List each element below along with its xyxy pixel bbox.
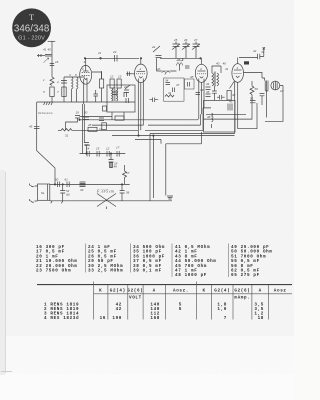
- capacitor 37: [173, 88, 175, 93]
- trimmer 27: [192, 44, 200, 58]
- capacitor 49: [212, 91, 217, 93]
- svg-text:15: 15: [96, 147, 100, 151]
- svg-text:33: 33: [177, 57, 181, 61]
- svg-text:50: 50: [255, 87, 259, 91]
- svg-text:2: 2: [56, 80, 59, 84]
- IF transformer to V4: [212, 73, 214, 86]
- resistor 31: [61, 129, 72, 132]
- schematic small labels: [29, 38, 284, 197]
- svg-text:G2(6): G2(6): [127, 289, 143, 294]
- svg-text:Aosz: Aosz: [274, 289, 287, 294]
- grid cap dark blob: [244, 61, 249, 64]
- svg-text:33 2,5 MOhm: 33 2,5 MOhm: [88, 269, 123, 274]
- capacitor 34: [166, 83, 171, 85]
- svg-text:31: 31: [168, 91, 172, 95]
- svg-text:G2(6): G2(6): [234, 289, 250, 294]
- capacitor 58: [260, 94, 265, 96]
- svg-text:26: 26: [183, 38, 188, 42]
- svg-text:45: 45: [29, 125, 33, 129]
- trimmer 25: [172, 44, 180, 58]
- svg-text:46: 46: [207, 115, 211, 119]
- svg-text:37: 37: [176, 83, 180, 87]
- svg-text:48 1000 pF: 48 1000 pF: [175, 273, 207, 278]
- wire: [72, 129, 92, 131]
- mains input terminals: [31, 185, 35, 202]
- wire: [80, 116, 113, 118]
- svg-text:40: 40: [216, 62, 220, 66]
- svg-text:42: 42: [116, 307, 122, 312]
- mains switch box 5a: [38, 184, 50, 200]
- antenna top bar: [48, 40, 56, 42]
- svg-text:27: 27: [193, 38, 198, 42]
- capacitor 56: [120, 191, 125, 194]
- svg-text:19: 19: [76, 111, 80, 115]
- capacitor 29 inner: [124, 92, 127, 97]
- svg-text:46: 46: [223, 62, 227, 66]
- wire right fan: [203, 104, 252, 119]
- resistor 31a zigzag: [165, 95, 174, 98]
- grid cluster stage 2: [107, 85, 135, 112]
- svg-text:VOLT: VOLT: [129, 296, 142, 301]
- svg-text:48: 48: [232, 93, 236, 97]
- svg-text:G1 - 220V: G1 - 220V: [18, 35, 45, 41]
- grid bias cluster 24a: [84, 143, 89, 146]
- parts list separators: [86, 244, 229, 278]
- svg-text:mAmp.: mAmp.: [234, 296, 250, 301]
- svg-text:18: 18: [258, 316, 264, 321]
- svg-text:48: 48: [114, 165, 118, 169]
- svg-text:5a: 5a: [41, 191, 45, 195]
- svg-text:65 275 pF: 65 275 pF: [231, 273, 260, 278]
- capacitor 14: [87, 151, 89, 157]
- svg-text:7: 7: [224, 316, 227, 321]
- wire tube V1 anode to top bus: [85, 58, 87, 65]
- svg-text:16: 16: [100, 316, 106, 321]
- resistor 57: [124, 165, 126, 171]
- capacitor 13: [99, 118, 104, 121]
- svg-text:F 33/5 cm: F 33/5 cm: [96, 189, 114, 194]
- svg-text:4 RES 1823d: 4 RES 1823d: [44, 316, 79, 321]
- trimmer bank above bus: [172, 42, 200, 59]
- capacitor 18: [109, 160, 114, 163]
- wire step: [66, 118, 78, 130]
- junction dots: [84, 58, 85, 59]
- trimmer caps: [173, 43, 200, 45]
- speaker field cross: [97, 194, 116, 207]
- wires stage3: [157, 58, 162, 71]
- wire: [212, 66, 221, 73]
- wire diagonal from left: [37, 102, 55, 184]
- resistor 48 box: [227, 91, 231, 101]
- capacitor 32: [153, 98, 155, 103]
- svg-text:12: 12: [106, 147, 110, 151]
- svg-text:39: 39: [80, 188, 84, 192]
- trimmer 26: [182, 44, 190, 58]
- svg-text:45: 45: [206, 90, 210, 94]
- capacitor 52: [60, 191, 65, 194]
- main bottom bus: [50, 183, 130, 185]
- chassis ground: [167, 196, 173, 199]
- svg-text:10: 10: [280, 89, 284, 93]
- capacitor 15: [97, 151, 99, 157]
- svg-text:61: 61: [65, 178, 69, 182]
- wire anode tube4: [239, 49, 264, 58]
- svg-text:51: 51: [250, 97, 254, 101]
- hv bus fan right: [80, 118, 199, 121]
- top rule: [37, 284, 292, 286]
- electrolytic 43: [228, 104, 232, 111]
- output transformer: [265, 81, 268, 91]
- resistor 1: [50, 77, 54, 85]
- svg-text:34: 34: [165, 79, 169, 83]
- svg-text:G2(4): G2(4): [110, 289, 126, 294]
- resistor 7 box: [62, 87, 66, 97]
- svg-text:A: A: [259, 289, 262, 294]
- node 21: [100, 58, 102, 60]
- tube V3 RENS1814: [195, 64, 207, 82]
- capacitor 45: [206, 94, 211, 97]
- wire anode1: [92, 72, 102, 79]
- svg-text:23 7500 Ohm: 23 7500 Ohm: [36, 269, 71, 274]
- antenna terminal: [37, 55, 45, 57]
- svg-text:K: K: [99, 289, 102, 294]
- cap 47 above tube4: [258, 54, 260, 59]
- svg-text:A: A: [153, 289, 156, 294]
- wire antenna vertical: [51, 41, 53, 77]
- resistor 10 box: [100, 79, 104, 88]
- svg-text:346/348: 346/348: [14, 23, 50, 34]
- svg-text:21: 21: [97, 51, 102, 55]
- table body text: [44, 303, 264, 321]
- svg-text:60: 60: [55, 178, 59, 182]
- svg-text:G2(4): G2(4): [214, 289, 230, 294]
- electrolytic 48b: [110, 162, 112, 168]
- table verticals: [94, 282, 269, 320]
- electrolytic 39: [80, 182, 86, 187]
- wire grid V2 left: [126, 73, 135, 75]
- wire agc verticals: [83, 104, 85, 154]
- resistor 22 box: [115, 116, 124, 120]
- wire to output box: [166, 144, 202, 196]
- svg-text:16: 16: [55, 60, 59, 64]
- capacitor 52b: [220, 95, 222, 100]
- sub box 38: [185, 79, 195, 89]
- svg-text:Richtantenne: Richtantenne: [37, 112, 54, 115]
- svg-text:K: K: [202, 289, 205, 294]
- wire: [51, 97, 53, 103]
- padder caps row: [153, 46, 162, 58]
- svg-text:41: 41: [43, 48, 47, 52]
- capacitor 17: [117, 151, 119, 157]
- header underline: [94, 293, 292, 295]
- svg-text:T: T: [29, 13, 34, 22]
- svg-text:42: 42: [253, 49, 257, 53]
- svg-text:47: 47: [261, 50, 265, 54]
- capacitor 38: [188, 82, 190, 87]
- cathode resistor 50: [250, 86, 254, 94]
- tube V1 RENS1819: [80, 65, 92, 84]
- svg-text:31: 31: [65, 134, 69, 138]
- capacitor 60: [58, 182, 60, 188]
- wire speaker down: [265, 86, 283, 122]
- coil 8: [77, 77, 79, 102]
- svg-text:58: 58: [265, 89, 269, 93]
- capacitor 23 on bus: [115, 55, 118, 62]
- svg-text:45: 45: [48, 48, 52, 52]
- svg-text:13: 13: [118, 75, 122, 79]
- svg-text:57: 57: [126, 171, 130, 175]
- svg-text:11: 11: [99, 127, 102, 131]
- ground hatch: [44, 102, 53, 105]
- top bus: [85, 57, 139, 59]
- capacitor 35: [185, 66, 190, 68]
- stage2 inner coil: [112, 88, 113, 101]
- resistor 11 box: [102, 123, 107, 130]
- svg-text:56: 56: [126, 191, 130, 195]
- svg-text:43: 43: [229, 100, 233, 104]
- svg-text:168: 168: [150, 316, 160, 321]
- coupling coil 2b: [162, 72, 171, 75]
- svg-text:190: 190: [112, 316, 122, 321]
- capacitor 2: [61, 81, 67, 84]
- capacitor 12: [107, 151, 109, 157]
- svg-text:41: 41: [225, 67, 229, 71]
- svg-text:39: 39: [200, 88, 204, 92]
- svg-text:30: 30: [84, 111, 88, 115]
- svg-text:14: 14: [86, 147, 90, 151]
- tube V4 RES1823d: [232, 64, 244, 83]
- capacitor 44: [206, 87, 211, 90]
- svg-text:12: 12: [110, 75, 114, 79]
- resistor 10b box: [103, 106, 107, 111]
- svg-text:44: 44: [206, 82, 210, 86]
- AF bus: [80, 153, 126, 155]
- svg-text:28: 28: [87, 123, 92, 127]
- coil 3: [72, 77, 74, 102]
- ground ticks bottom: [51, 201, 107, 209]
- choke 46: [212, 113, 214, 122]
- wire branch: [63, 77, 65, 102]
- wire speaker top: [244, 73, 265, 81]
- wire coil top: [64, 76, 85, 78]
- capacitor 16: [50, 64, 55, 66]
- capacitor 45: [45, 55, 52, 57]
- tube V2 RENS1819: [135, 64, 148, 82]
- speaker 10: [271, 81, 280, 90]
- capacitor 20: [94, 94, 99, 96]
- svg-text:5: 5: [179, 307, 182, 312]
- svg-text:17: 17: [116, 146, 120, 150]
- svg-text:Aosz.: Aosz.: [173, 289, 189, 294]
- capacitor 45b: [34, 126, 40, 128]
- model badge T 346/348 G1-220V: [12, 8, 51, 47]
- capacitor 51: [250, 101, 256, 103]
- svg-text:2: 2: [139, 67, 142, 71]
- table header text: [99, 289, 287, 301]
- svg-text:38: 38: [190, 75, 194, 79]
- capacitor 19: [75, 116, 80, 119]
- capacitor 39b below tube3: [196, 93, 201, 95]
- power supply filter box: [204, 101, 236, 133]
- svg-text:22: 22: [123, 85, 128, 89]
- svg-text:25: 25: [173, 38, 178, 42]
- resistor 28 box: [88, 127, 97, 131]
- ground rail left: [37, 101, 135, 103]
- stage2 coupling components: [110, 79, 114, 88]
- osc coil M: [176, 63, 182, 66]
- osc section box: [164, 78, 185, 101]
- svg-text:23: 23: [112, 50, 117, 54]
- svg-text:2b: 2b: [156, 67, 161, 71]
- resistor 5 box: [50, 87, 54, 97]
- svg-text:39 0,1 mF: 39 0,1 mF: [133, 269, 162, 274]
- left page edge shadow: [0, 170, 5, 375]
- svg-text:2a: 2a: [151, 45, 156, 49]
- svg-text:1,0: 1,0: [217, 307, 227, 312]
- wire stage2 verticals: [101, 71, 103, 102]
- svg-text:(6): (6): [66, 193, 70, 197]
- capacitor 61: [67, 182, 69, 188]
- capacitor 30: [83, 117, 89, 120]
- trimmer arrow: [44, 58, 49, 63]
